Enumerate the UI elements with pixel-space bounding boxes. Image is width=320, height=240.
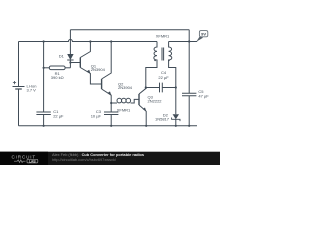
svg-text:XFMR1: XFMR1 xyxy=(117,107,131,112)
svg-text:22 µF: 22 µF xyxy=(53,113,64,118)
svg-text:2N3904: 2N3904 xyxy=(91,67,106,72)
svg-text:XFMR1: XFMR1 xyxy=(156,34,170,39)
svg-text:9V: 9V xyxy=(201,31,206,36)
svg-text:390 kΩ: 390 kΩ xyxy=(51,75,64,80)
svg-text:47 µF: 47 µF xyxy=(198,93,209,98)
svg-text:LAB: LAB xyxy=(29,159,36,163)
svg-text:2N3904: 2N3904 xyxy=(118,85,133,90)
svg-text:D1: D1 xyxy=(59,54,65,59)
svg-text:3.7 V: 3.7 V xyxy=(27,88,37,93)
svg-text:1N5817: 1N5817 xyxy=(155,116,170,121)
svg-text:10 µF: 10 µF xyxy=(91,113,102,118)
svg-text:http://circuitlab.com/c/hsbv69: http://circuitlab.com/c/hsbv697xwsvk/ xyxy=(52,157,117,162)
svg-text:2N2222: 2N2222 xyxy=(148,98,163,103)
svg-text:22 µF: 22 µF xyxy=(158,75,169,80)
